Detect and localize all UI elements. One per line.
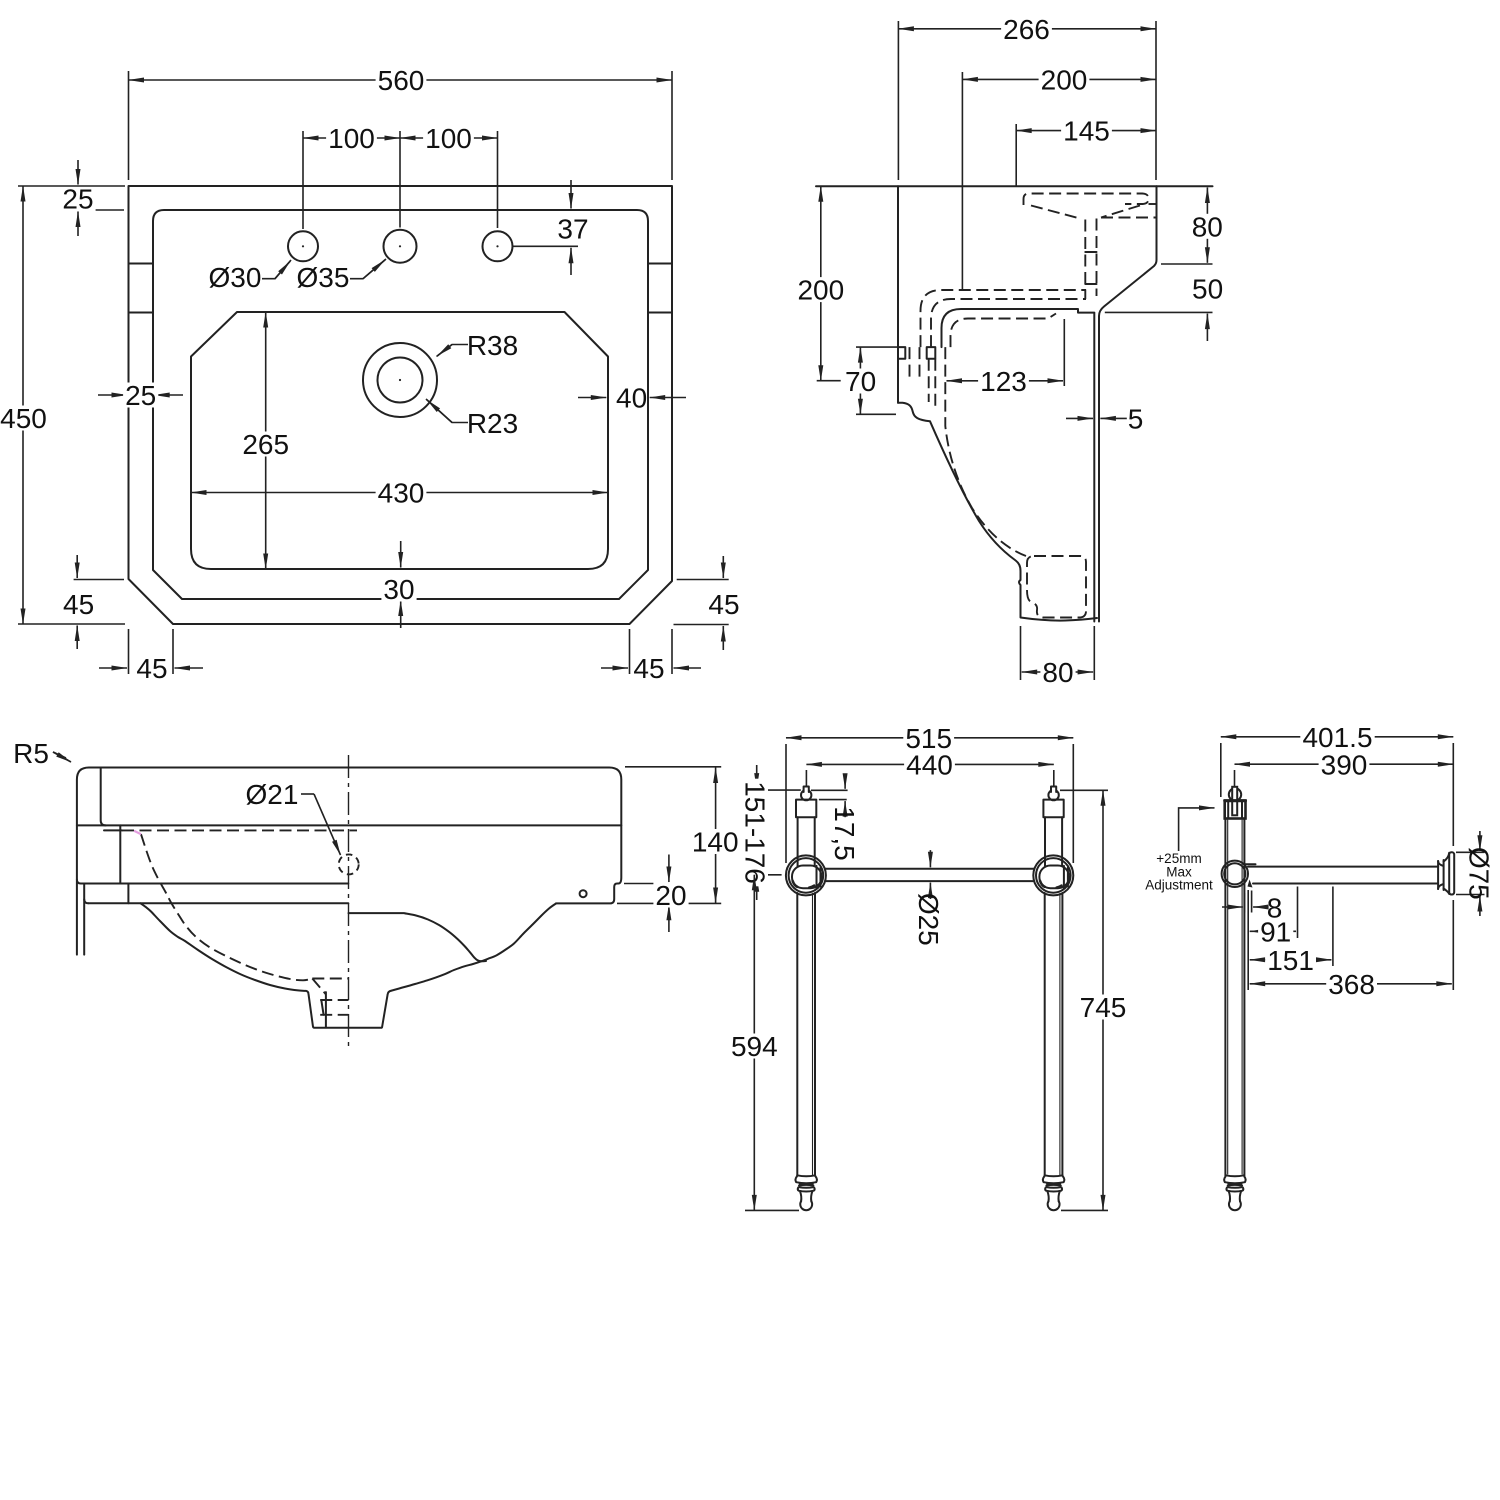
front view centerline	[348, 755, 350, 1051]
dim 560 extension lines	[128, 71, 130, 180]
basin plan view outline	[129, 186, 673, 624]
washstand leg	[801, 790, 811, 800]
front view apron inner edge	[83, 884, 85, 955]
section hidden slot lines	[909, 347, 911, 381]
dim 515 extensions	[785, 744, 787, 863]
dim 50 right	[1206, 314, 1208, 341]
dim 745 extensions	[1060, 789, 1108, 791]
dim 70 extensions	[856, 346, 897, 348]
label O30 with leader	[262, 260, 291, 279]
section T-stem hidden lines	[1084, 220, 1086, 300]
dim 145 extension	[1015, 124, 1017, 186]
dim O25	[929, 850, 931, 867]
dim 80 right extensions	[1161, 263, 1213, 265]
dim 20 extension	[624, 883, 658, 885]
leg foot	[1045, 1174, 1063, 1177]
dim 151 extension	[1332, 887, 1334, 967]
dim 25 mid-left horizontal	[98, 394, 127, 396]
dim 390 extension	[1234, 770, 1236, 786]
side leg bracket stud	[1229, 788, 1241, 800]
magenta dash artifact on hidden bowl curve	[134, 831, 141, 834]
dim 45 bottom-left horizontal	[128, 629, 130, 674]
label R38 with leader	[437, 345, 469, 357]
section front face and chamfer	[1099, 186, 1157, 621]
dim 200 vertical extension	[817, 380, 841, 382]
dim 20	[668, 855, 670, 883]
section tap deck hidden lines to front face	[1149, 203, 1157, 205]
leg foot	[1226, 1174, 1244, 1177]
plan right fixing slot ticks	[648, 263, 672, 265]
dim 266 extension lines	[897, 21, 899, 180]
front view drain solid internals	[325, 992, 327, 1027]
dim 368 extensions	[1247, 890, 1249, 990]
dim 401.5	[1221, 736, 1454, 738]
dim 80 foot extensions	[1020, 626, 1022, 680]
dim 91	[1250, 930, 1270, 932]
front view hidden rim line solid start	[104, 829, 122, 831]
leg collar ring	[786, 855, 826, 895]
section tap deck hidden underside right	[1101, 206, 1140, 218]
front view step notch vertical	[127, 884, 129, 904]
dim 265 vertical	[265, 312, 267, 569]
side leg bracket	[1225, 801, 1246, 819]
tap hole left	[288, 231, 318, 261]
dim 100 100 extension lines	[302, 131, 304, 229]
collar sleeve	[1039, 866, 1069, 889]
dim 91 extension	[1297, 887, 1299, 939]
hidden waste circle O21	[339, 854, 359, 874]
washstand leg	[1048, 790, 1058, 800]
dim 430 horizontal	[191, 492, 608, 494]
dim 140	[715, 768, 717, 904]
towel rail	[826, 868, 1033, 870]
dim 266	[898, 28, 1156, 30]
section ledge hidden line 2	[931, 299, 1086, 347]
dim O75	[1479, 831, 1481, 851]
front view rim inner vertical right	[119, 825, 121, 883]
dim 123	[947, 380, 1004, 382]
dim 100 left	[303, 137, 360, 139]
section underside outline	[898, 403, 1097, 621]
label O21 with leader	[301, 793, 314, 795]
dim 200 horizontal extension	[961, 72, 963, 290]
dim 70	[859, 347, 861, 414]
dim 390	[1235, 763, 1454, 765]
section back step upper	[898, 347, 905, 359]
leg shaft	[1044, 893, 1046, 1176]
dim 45 left vertical	[74, 579, 124, 581]
dim 401.5 extensions	[1220, 743, 1222, 797]
front view hidden rim inner line	[122, 829, 357, 831]
section foot hidden pocket	[1027, 556, 1086, 618]
dim 45 right vertical	[677, 579, 729, 581]
leg collar ring	[1033, 855, 1073, 895]
section ledge hidden line 3	[951, 314, 1057, 348]
bowl outline	[191, 312, 608, 569]
front view fixing hole	[580, 890, 587, 897]
dim 151	[1250, 959, 1285, 961]
front view rim section inner vertical	[101, 768, 106, 826]
dim 37	[570, 180, 572, 209]
waste inner circle R23	[378, 358, 423, 403]
dim 8 side	[1222, 906, 1243, 908]
section bolt slot solid box	[927, 347, 936, 359]
dim 200 horizontal	[962, 78, 1156, 80]
dim O75 extensions	[1456, 851, 1485, 853]
basin rim inner outline	[153, 210, 648, 599]
front view hidden bowl inner curve	[141, 834, 312, 980]
dim 100 right	[400, 137, 457, 139]
section T-stem joggles	[1085, 251, 1096, 253]
dim 17,5	[844, 779, 846, 789]
dim 200 vertical	[820, 186, 822, 380]
front view bowl silhouette curve right	[391, 904, 556, 991]
dim 515	[786, 737, 1073, 739]
front view top slab outline	[77, 768, 621, 955]
section ledge front edge extension	[1105, 311, 1213, 313]
dim 440	[806, 763, 1053, 765]
dim 560	[129, 79, 673, 81]
front view section step line	[77, 880, 81, 884]
leg foot	[797, 1174, 815, 1177]
dim 17,5 extensions	[811, 789, 848, 791]
dim 368	[1250, 983, 1345, 985]
tap hole right	[483, 231, 513, 261]
dim 80 foot	[1022, 671, 1057, 673]
dim 123 extension	[1063, 319, 1065, 386]
collar sleeve	[792, 866, 822, 889]
front view bowl outer curve left	[141, 903, 392, 1028]
front view overflow bulge curve right	[349, 913, 487, 961]
section bowl back hidden curve	[945, 347, 1026, 556]
side leg shaft	[1224, 819, 1226, 1176]
leg shaft	[796, 893, 798, 1176]
dim 151-176	[756, 765, 758, 789]
dim 40	[578, 397, 606, 399]
front view section bottom line	[88, 902, 348, 904]
dim 140 extensions	[625, 766, 721, 768]
label R5 with leader	[53, 752, 66, 758]
front view apron underside fillet	[84, 899, 88, 903]
section back wall	[897, 186, 899, 402]
rail leader dot	[1248, 880, 1253, 888]
section top edge	[816, 185, 1213, 187]
front view hidden drain lines	[312, 978, 348, 980]
dim 145	[1016, 130, 1156, 132]
side rail	[1244, 863, 1256, 865]
side collar ring	[1222, 861, 1248, 887]
front view rim bottom edge	[77, 824, 621, 826]
waste outer circle R38	[363, 343, 437, 417]
label R23 with leader	[426, 399, 468, 423]
section tap deck hidden underside left	[1031, 206, 1080, 219]
section ledge hidden line 1	[921, 290, 1087, 347]
label O35 with leader	[350, 259, 386, 279]
label +25mm Max Adjustment with leader	[1179, 808, 1209, 851]
dim 80 right	[1206, 188, 1208, 263]
dim 440 extensions	[805, 770, 807, 786]
dim 30 vertical	[400, 541, 402, 568]
plan left fixing slot ticks	[129, 263, 154, 265]
dim 594 extension	[745, 1209, 799, 1211]
dim 450 vertical	[18, 185, 125, 187]
dim 594	[753, 875, 755, 1211]
tap hole middle	[384, 230, 417, 263]
dim 151-176 extensions	[753, 789, 801, 791]
dim 45 bottom-right horizontal	[629, 629, 631, 674]
dim 8 extensions side	[1243, 893, 1245, 913]
rail wall flange	[1437, 861, 1439, 889]
section ledge solid line	[942, 309, 1095, 347]
section tap deck hidden slot	[1024, 194, 1149, 206]
dim 25 top-left vertical	[72, 209, 124, 211]
section front skirt inner line	[1093, 313, 1095, 622]
dim 5	[1066, 417, 1093, 419]
dim 745	[1102, 790, 1104, 1210]
